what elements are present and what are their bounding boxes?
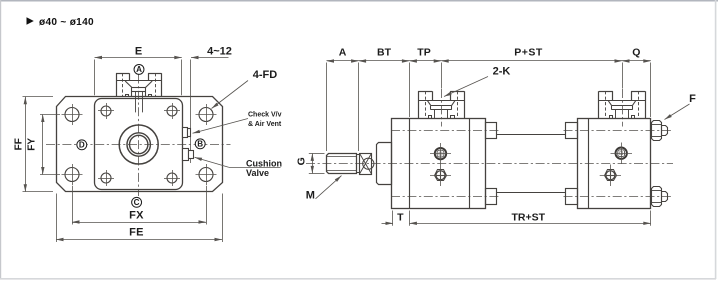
centerline horizontal (left view) [46, 144, 231, 146]
tie rod hole bottom-left [101, 173, 111, 183]
cushion screw (cap) [605, 170, 617, 181]
port bore hidden lines [135, 92, 137, 113]
wrench flats box [360, 154, 372, 175]
rear cap block [578, 119, 651, 209]
flange plate [57, 97, 223, 192]
dimension BT [359, 60, 410, 62]
svg-text:FY: FY [27, 138, 38, 151]
top dimension chain extension lines [326, 63, 328, 152]
front port boss [418, 91, 432, 93]
check valve screw (head) [435, 148, 446, 159]
svg-text:Q: Q [632, 47, 640, 59]
label D circled [77, 140, 87, 150]
svg-text:FF: FF [14, 138, 25, 150]
svg-text:FE: FE [129, 226, 144, 238]
rear port boss [599, 91, 613, 93]
svg-text:4-FD: 4-FD [253, 69, 278, 81]
svg-text:Check V/v: Check V/v [248, 112, 282, 119]
check valve plug (left view) [183, 128, 188, 138]
corner hole FD top-left [65, 108, 79, 122]
head block [392, 119, 486, 209]
svg-text:A: A [339, 47, 347, 59]
rod gland flange [377, 143, 392, 185]
svg-text:M: M [306, 190, 315, 202]
dimension P+ST [441, 60, 622, 62]
svg-text:Valve: Valve [246, 168, 269, 178]
svg-text:BT: BT [377, 47, 392, 59]
centerline vertical (left view) [138, 75, 140, 197]
tie rod centerline lower [391, 196, 501, 198]
corner hole FD bottom-right [199, 168, 213, 182]
dimension TP [409, 60, 441, 62]
rod neck [357, 155, 360, 173]
svg-text:TP: TP [417, 47, 430, 59]
svg-text:& Air Vent: & Air Vent [248, 121, 282, 128]
port mouth corner marks [126, 95, 129, 97]
tie rod boss head lower [486, 189, 497, 205]
tie rod centerline upper [391, 130, 501, 132]
dimension TR+ST [409, 223, 650, 225]
svg-text:B: B [197, 139, 203, 148]
dimension T (outside arrows) [382, 223, 394, 225]
dimension E [94, 60, 96, 96]
center bore circles [119, 125, 158, 164]
svg-text:G: G [296, 157, 308, 165]
dimension Q [622, 60, 651, 62]
label C circled [132, 197, 142, 207]
title bullet triangle [27, 17, 34, 24]
svg-text:FX: FX [129, 209, 144, 221]
tie rod hole bottom-right [167, 173, 177, 183]
svg-text:T: T [397, 212, 404, 224]
dimension A [327, 60, 359, 62]
dimension 4~12 [190, 60, 192, 164]
tie rod boss cap lower [566, 189, 578, 205]
dimension FF [23, 96, 54, 98]
svg-text:E: E [135, 46, 142, 58]
tie rod boss head upper [486, 123, 497, 139]
svg-text:4~12: 4~12 [207, 46, 232, 58]
svg-text:2-K: 2-K [493, 66, 511, 78]
svg-text:P+ST: P+ST [514, 47, 543, 59]
tie rod hole top-left [101, 106, 111, 116]
dimension FX [72, 186, 74, 225]
svg-text:D: D [79, 140, 85, 149]
tie rod boss cap upper [566, 123, 578, 139]
cushion valve plug (left view) [183, 149, 189, 161]
dimension G [309, 153, 325, 155]
port block thread dashed lines [122, 73, 124, 97]
svg-text:F: F [689, 93, 696, 105]
svg-text:TR+ST: TR+ST [512, 212, 546, 224]
corner hole FD top-right [199, 108, 213, 122]
svg-text:ø40 ~ ø140: ø40 ~ ø140 [39, 17, 94, 28]
svg-text:C: C [134, 198, 140, 207]
main centerline (side view) [306, 163, 673, 165]
dimension FE [56, 194, 58, 243]
cylinder body square [95, 99, 183, 190]
tie rod nut upper [652, 121, 662, 141]
piston rod thread M [327, 154, 357, 174]
label B circled [195, 139, 205, 149]
dimension FY [40, 114, 60, 116]
tie rod nut lower [652, 187, 662, 207]
port block on top [116, 73, 129, 75]
check valve screw (cap) [616, 148, 627, 159]
page border [0, 0, 718, 2]
svg-text:A: A [136, 65, 142, 74]
tie rod hole top-right [167, 106, 177, 116]
cylinder tube edges [497, 134, 565, 136]
cushion screw (head) [435, 170, 447, 181]
corner hole FD bottom-left [65, 168, 79, 182]
label A circled [134, 64, 144, 74]
bottom dimension extension lines [392, 211, 394, 226]
